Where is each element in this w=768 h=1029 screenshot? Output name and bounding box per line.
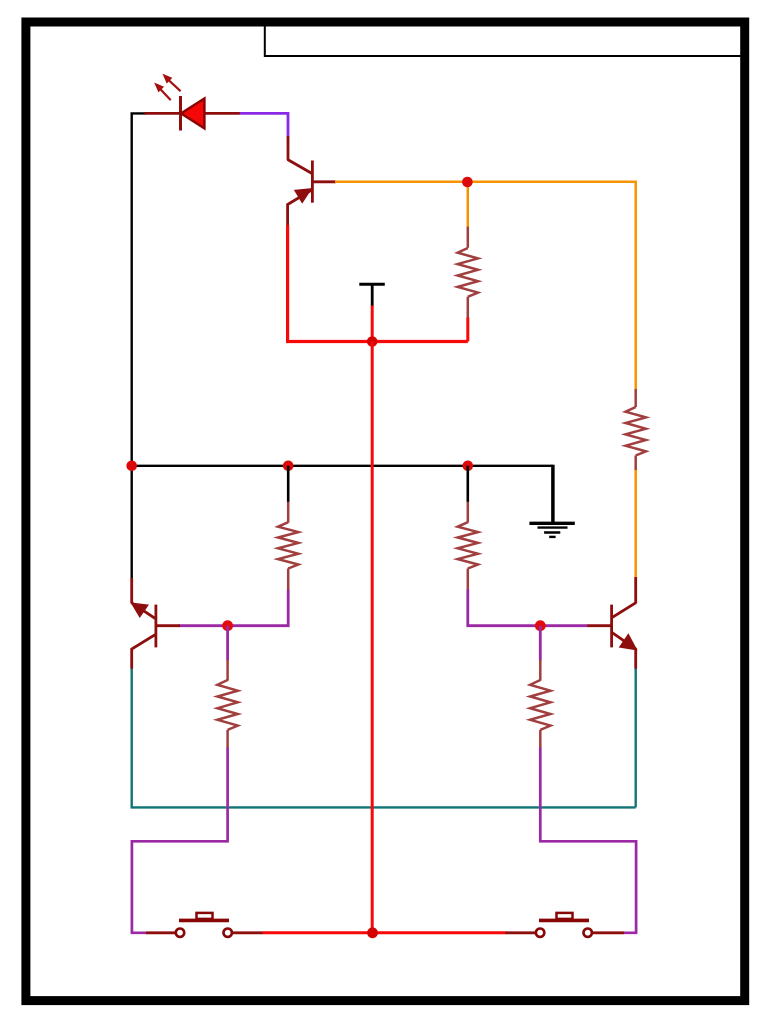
wire red Q1 emitter net <box>288 225 468 342</box>
resistor R2 (middle) <box>458 227 478 319</box>
wire darkred Q3 collector stub <box>634 577 637 604</box>
resistor R6 <box>217 660 237 749</box>
wire red bottom bus <box>262 931 506 934</box>
wire darkred Q1 collector stub <box>287 136 290 160</box>
node junction red mid <box>367 336 378 347</box>
wire purple lower-right <box>540 748 636 933</box>
resistor R5 (right side) <box>626 389 646 471</box>
wire purple R3 to base node <box>179 589 289 625</box>
node junction orange/R2 <box>467 182 470 228</box>
wire red R2 bottom <box>466 318 469 342</box>
resistor R7 (lower right) purple lead <box>539 626 542 661</box>
push button S2 <box>536 913 592 937</box>
wire purple LED to Q1 <box>240 113 288 137</box>
node junction base left <box>222 620 233 631</box>
wire darkred button2 right lead <box>592 931 624 934</box>
wire orange below R5 <box>634 470 637 578</box>
transistor Q1 (PNP) <box>288 160 336 227</box>
node junction black left <box>126 461 137 472</box>
wire darkred button2 left lead <box>506 931 536 934</box>
wire orange base net Q1 <box>335 182 636 390</box>
wire black LED left <box>132 113 147 579</box>
resistor R7 <box>530 660 550 749</box>
power tap T symbol <box>359 284 385 306</box>
resistor R3 leads black <box>287 466 290 503</box>
LED emission arrow 1 <box>155 83 171 100</box>
wire darkred Q2 base stub <box>157 624 180 627</box>
title block notch <box>265 26 742 56</box>
node junction black R3 <box>283 461 294 472</box>
wire darkred LED anode lead <box>145 112 182 115</box>
LED emission arrow 2 <box>163 75 180 92</box>
wire ground stem <box>551 465 555 524</box>
wire darkred LED cathode lead <box>204 112 240 115</box>
push button S1 <box>176 913 232 937</box>
wire teal left <box>132 669 636 808</box>
wire red long vertical <box>371 342 374 933</box>
wire darkred Q2 emitter stub <box>130 578 133 604</box>
wire black bus <box>132 465 553 467</box>
transistor Q3 (NPN right) <box>612 603 636 670</box>
wire darkred Q3 base stub <box>588 624 612 627</box>
transistor Q2 (NPN left) <box>132 603 156 670</box>
wire purple R4 to base node right <box>468 589 589 625</box>
wire red T stem <box>371 306 374 342</box>
resistor R6 (lower left) purple lead <box>226 626 229 661</box>
LED D1 cathode bar <box>179 96 182 131</box>
resistor R4 <box>458 502 478 591</box>
ground symbol <box>529 523 574 537</box>
LED D1 triangle <box>181 99 204 129</box>
node junction black R4 <box>463 461 474 472</box>
wire teal right stub <box>635 669 637 808</box>
node junction base right <box>535 620 546 631</box>
wire darkred button1 left lead <box>146 931 176 934</box>
resistor R3 <box>278 502 298 591</box>
node junction bottom <box>367 927 378 938</box>
wire darkred button1 right lead <box>233 931 264 934</box>
wire purple lower-left <box>132 748 228 933</box>
resistor R4 lead black <box>466 466 469 503</box>
